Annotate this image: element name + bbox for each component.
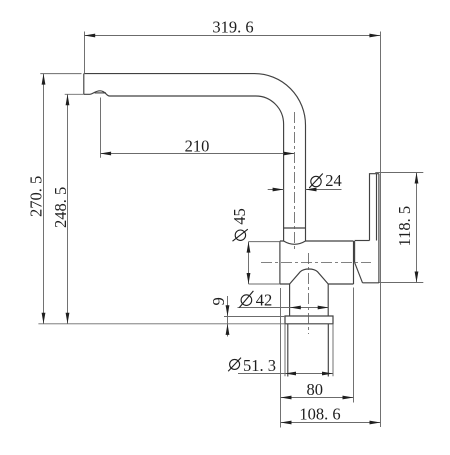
arrow 210 right bbox=[284, 152, 295, 156]
arrow dia42 right bbox=[318, 306, 329, 310]
body top edge bbox=[280, 240, 354, 242]
dim 108.6 line bbox=[281, 422, 381, 424]
arrow 118.5 bottom bbox=[415, 272, 419, 283]
spout tip edge bbox=[83, 74, 85, 95]
arrow dia24 right bbox=[306, 188, 317, 192]
svg-text:51. 3: 51. 3 bbox=[243, 356, 276, 375]
dim 118.5 extension lines bbox=[375, 173, 423, 283]
dim 9 line bbox=[227, 296, 229, 337]
arrow dia45 bottom bbox=[247, 273, 251, 284]
bracket diagonal bbox=[355, 262, 363, 282]
label dia42 symbol bbox=[239, 291, 253, 308]
svg-text:42: 42 bbox=[256, 291, 272, 310]
base centerline bbox=[308, 253, 310, 334]
deck baseline extension bbox=[38, 323, 285, 325]
label dia45 symbol bbox=[233, 229, 248, 241]
dim 80 extension lines bbox=[281, 288, 354, 428]
arrow 270.5 bottom bbox=[42, 313, 46, 324]
aerator seam line bbox=[95, 92, 106, 94]
spout underside with aerator bump bbox=[84, 91, 284, 241]
neck cylinder bbox=[290, 284, 329, 316]
svg-text:210: 210 bbox=[185, 137, 210, 156]
arrow 9 top bbox=[226, 305, 230, 316]
body left edge bbox=[279, 241, 281, 284]
arrow dia51.3 right bbox=[322, 372, 333, 376]
arrow 210 left bbox=[100, 152, 111, 156]
label dia51.3 symbol bbox=[228, 358, 241, 372]
arrow 319.6 right bbox=[369, 34, 380, 38]
handle bracket left edge bbox=[354, 241, 356, 262]
bracket bottom bbox=[363, 282, 379, 284]
arrow 108.6 left bbox=[281, 421, 292, 425]
arrow 118.5 top bbox=[415, 173, 419, 184]
dome arch bbox=[290, 269, 329, 284]
body saddle arc bbox=[284, 241, 306, 244]
dim 118.5 line bbox=[416, 173, 418, 283]
label dia24 symbol bbox=[309, 174, 323, 189]
flange bbox=[285, 316, 333, 324]
dim dia51.3 extension lines bbox=[285, 324, 333, 377]
svg-text:9: 9 bbox=[209, 297, 228, 305]
arrow 270.5 top bbox=[42, 74, 46, 85]
dim 319.6 extension lines bbox=[85, 32, 381, 428]
bracket ledge bbox=[355, 240, 370, 242]
arrow 319.6 left bbox=[84, 34, 95, 38]
dim dia45 line bbox=[248, 242, 250, 284]
arrow 108.6 right bbox=[370, 421, 381, 425]
svg-text:45: 45 bbox=[230, 208, 249, 225]
arrow dia45 top bbox=[247, 242, 251, 253]
svg-text:24: 24 bbox=[325, 171, 342, 190]
dim 270.5 extension line bbox=[40, 73, 81, 75]
svg-text:118. 5: 118. 5 bbox=[395, 206, 414, 247]
svg-text:319. 6: 319. 6 bbox=[212, 18, 253, 37]
body centerline bbox=[261, 262, 371, 264]
handle lever bbox=[370, 174, 379, 283]
arrow 9 bottom bbox=[226, 324, 230, 335]
dim 210 extension line bbox=[100, 98, 102, 158]
dim 248.5 line bbox=[67, 94, 69, 323]
arrow 80 right bbox=[343, 396, 354, 400]
dim dia24 line bbox=[268, 189, 342, 191]
arrow 80 left bbox=[281, 396, 292, 400]
dim 9 extension line bbox=[224, 316, 285, 318]
faucet spout outline bbox=[84, 74, 306, 241]
svg-text:270. 5: 270. 5 bbox=[27, 176, 46, 217]
base cylinder bbox=[288, 324, 329, 377]
dim dia45 extension lines bbox=[249, 242, 280, 284]
arrow dia51.3 left bbox=[285, 372, 296, 376]
arrow 248.5 bottom bbox=[66, 313, 70, 324]
dim dia51.3 line bbox=[238, 373, 333, 375]
pipe joint line bbox=[284, 227, 306, 229]
dim 248.5 extension line bbox=[65, 93, 84, 95]
dim 80 line bbox=[281, 397, 354, 399]
arrow dia42 left bbox=[290, 306, 301, 310]
dim 319.6 line bbox=[84, 35, 380, 37]
body right edge bbox=[353, 241, 355, 284]
pipe centerline bbox=[294, 112, 296, 252]
svg-text:80: 80 bbox=[306, 380, 323, 399]
svg-text:108. 6: 108. 6 bbox=[299, 405, 340, 424]
arrow dia24 left bbox=[273, 188, 284, 192]
dim 270.5 line bbox=[43, 74, 45, 324]
body bottom edge bbox=[280, 283, 354, 285]
dim 210 line bbox=[100, 153, 294, 155]
arrow 248.5 top bbox=[66, 94, 70, 105]
svg-text:248. 5: 248. 5 bbox=[51, 187, 70, 228]
dim dia42 line bbox=[238, 307, 329, 309]
